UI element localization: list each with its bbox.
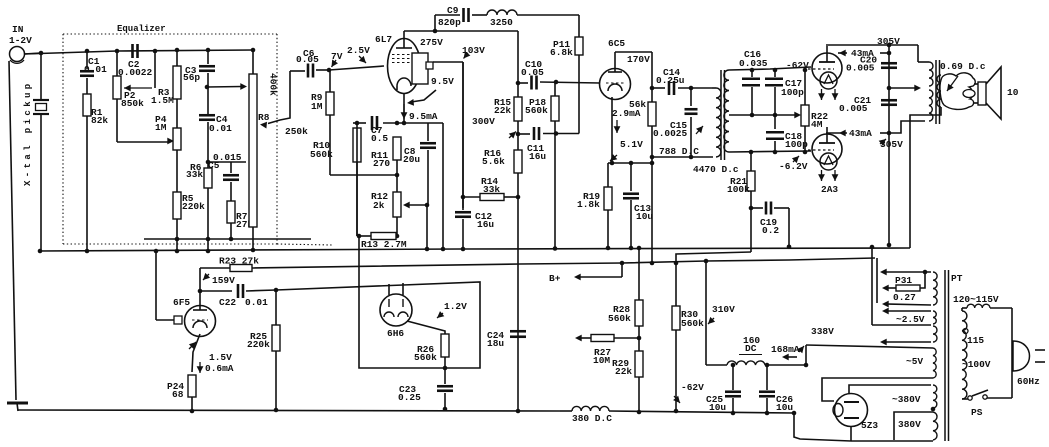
svg-text:100k: 100k [727,184,750,195]
svg-text:1M: 1M [155,122,167,133]
svg-text:4470 D.c: 4470 D.c [693,164,739,175]
svg-text:R13 2.7M: R13 2.7M [361,239,407,250]
svg-text:0.5: 0.5 [371,133,388,144]
svg-text:Equalizer: Equalizer [117,24,166,34]
svg-text:10u: 10u [636,211,653,222]
svg-text:56p: 56p [183,72,200,83]
svg-text:560k: 560k [608,313,631,324]
svg-text:0.005: 0.005 [846,63,875,74]
svg-text:400k: 400k [268,73,279,96]
svg-text:0.25u: 0.25u [656,75,685,86]
svg-text:10: 10 [1007,87,1019,98]
svg-text:6H6: 6H6 [387,328,404,339]
svg-text:43mA: 43mA [849,128,872,139]
svg-text:560k: 560k [681,318,704,329]
svg-text:PT: PT [951,273,963,284]
svg-text:168mA: 168mA [771,344,800,355]
svg-text:788 D.C: 788 D.C [659,146,699,157]
svg-text:20u: 20u [403,154,420,165]
svg-text:338V: 338V [811,326,834,337]
svg-text:9.5V: 9.5V [431,76,454,87]
svg-text:820p: 820p [438,17,461,28]
svg-text:170V: 170V [627,54,650,65]
svg-text:~5V: ~5V [906,356,923,367]
svg-text:120~115V: 120~115V [953,294,999,305]
svg-text:1.5V: 1.5V [209,352,232,363]
svg-text:C22: C22 [219,297,236,308]
svg-text:275V: 275V [420,37,443,48]
svg-text:220k: 220k [182,201,205,212]
svg-text:0.01: 0.01 [84,64,107,75]
svg-text:P31: P31 [895,275,912,286]
svg-text:2A3: 2A3 [821,184,838,195]
svg-text:-62V: -62V [681,382,704,393]
svg-text:6C5: 6C5 [608,38,625,49]
svg-text:18u: 18u [487,338,504,349]
svg-text:380 D.C: 380 D.C [572,413,612,424]
svg-text:159V: 159V [212,275,235,286]
svg-text:22k: 22k [615,366,632,377]
svg-text:9.5mA: 9.5mA [409,111,438,122]
svg-text:DC: DC [745,343,757,354]
svg-text:1.5M: 1.5M [151,95,174,106]
svg-text:R8: R8 [258,112,270,123]
svg-text:82k: 82k [91,115,108,126]
svg-text:10u: 10u [776,402,793,413]
svg-text:850k: 850k [121,98,144,109]
svg-text:68: 68 [172,389,184,400]
svg-text:60Hz: 60Hz [1017,376,1040,387]
svg-text:C9: C9 [447,5,459,16]
svg-text:1-2V: 1-2V [9,35,32,46]
svg-text:4M: 4M [811,119,823,130]
svg-text:2k: 2k [373,200,385,211]
svg-text:5.6k: 5.6k [482,156,505,167]
svg-text:5Z3: 5Z3 [861,420,878,431]
svg-text:560k: 560k [525,105,548,116]
svg-text:6L7: 6L7 [375,34,392,45]
svg-text:~2.5V: ~2.5V [896,314,925,325]
svg-text:33k: 33k [186,169,203,180]
svg-text:16u: 16u [477,219,494,230]
svg-text:250k: 250k [285,126,308,137]
svg-text:0.035: 0.035 [739,58,768,69]
svg-text:6F5: 6F5 [173,297,190,308]
svg-text:-6.2V: -6.2V [779,161,808,172]
svg-text:1.8k: 1.8k [577,199,600,210]
svg-text:0.05: 0.05 [521,67,544,78]
svg-text:0.2: 0.2 [762,225,779,236]
svg-text:~100V: ~100V [962,359,991,370]
svg-text:3250: 3250 [490,17,513,28]
svg-text:0.005: 0.005 [839,103,868,114]
svg-text:0.69 D.c: 0.69 D.c [940,61,986,72]
svg-text:B+: B+ [549,273,561,284]
svg-text:560k: 560k [310,149,333,160]
svg-text:0.27: 0.27 [893,292,916,303]
svg-text:270: 270 [373,158,390,169]
svg-text:0.0025: 0.0025 [653,128,688,139]
svg-text:2.5V: 2.5V [347,45,370,56]
svg-text:X-tal pickup: X-tal pickup [23,80,33,186]
svg-text:1.2V: 1.2V [444,301,467,312]
svg-text:10M: 10M [593,355,610,366]
svg-text:~380V: ~380V [892,394,921,405]
svg-text:300V: 300V [472,116,495,127]
svg-text:0.0022: 0.0022 [118,67,153,78]
svg-text:PS: PS [971,407,983,418]
svg-text:380V: 380V [898,419,921,430]
svg-text:0.01: 0.01 [209,123,232,134]
svg-text:5.1V: 5.1V [620,139,643,150]
svg-text:0.01: 0.01 [245,297,268,308]
svg-text:6.8k: 6.8k [550,47,573,58]
svg-text:C5: C5 [208,160,220,171]
svg-text:1M: 1M [311,101,323,112]
svg-text:220k: 220k [247,339,270,350]
svg-text:560k: 560k [414,352,437,363]
svg-text:0.05: 0.05 [296,54,319,65]
svg-text:2.9mA: 2.9mA [612,108,641,119]
svg-text:16u: 16u [529,151,546,162]
svg-text:22k: 22k [494,105,511,116]
svg-text:115: 115 [967,335,984,346]
svg-text:IN: IN [12,24,24,35]
svg-text:0.6mA: 0.6mA [205,363,234,374]
svg-text:310V: 310V [712,304,735,315]
svg-text:33k: 33k [483,184,500,195]
svg-text:0.25: 0.25 [398,392,421,403]
svg-text:R23 27k: R23 27k [219,256,259,267]
svg-text:100p: 100p [781,87,804,98]
